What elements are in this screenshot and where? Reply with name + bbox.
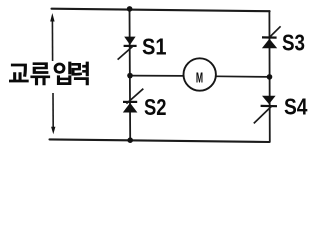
wire right bridge leg xyxy=(268,11,270,142)
AC source arrow down xyxy=(51,93,55,134)
label AC input (Korean) xyxy=(9,62,89,86)
wire motor right xyxy=(216,75,270,78)
svg-text:S4: S4 xyxy=(284,94,308,120)
wire top rail xyxy=(52,9,270,12)
thyristor S3 xyxy=(262,26,281,48)
node junction bottom-left xyxy=(127,137,133,143)
thyristor S2 xyxy=(123,89,144,113)
node junction mid-right xyxy=(267,74,273,80)
svg-text:S1: S1 xyxy=(142,34,167,60)
node junction mid-left xyxy=(127,73,133,79)
thyristor S1 xyxy=(118,37,137,60)
thyristor S4 xyxy=(254,96,277,124)
wire motor left xyxy=(130,75,184,77)
svg-text:S2: S2 xyxy=(144,94,167,120)
svg-text:S3: S3 xyxy=(282,29,305,55)
svg-text:M: M xyxy=(196,69,203,86)
motor M1 xyxy=(184,58,216,90)
node junction top-left xyxy=(127,6,133,12)
wire left bridge leg xyxy=(129,9,132,141)
AC source arrow up xyxy=(50,13,54,61)
wire bottom rail xyxy=(50,139,270,142)
